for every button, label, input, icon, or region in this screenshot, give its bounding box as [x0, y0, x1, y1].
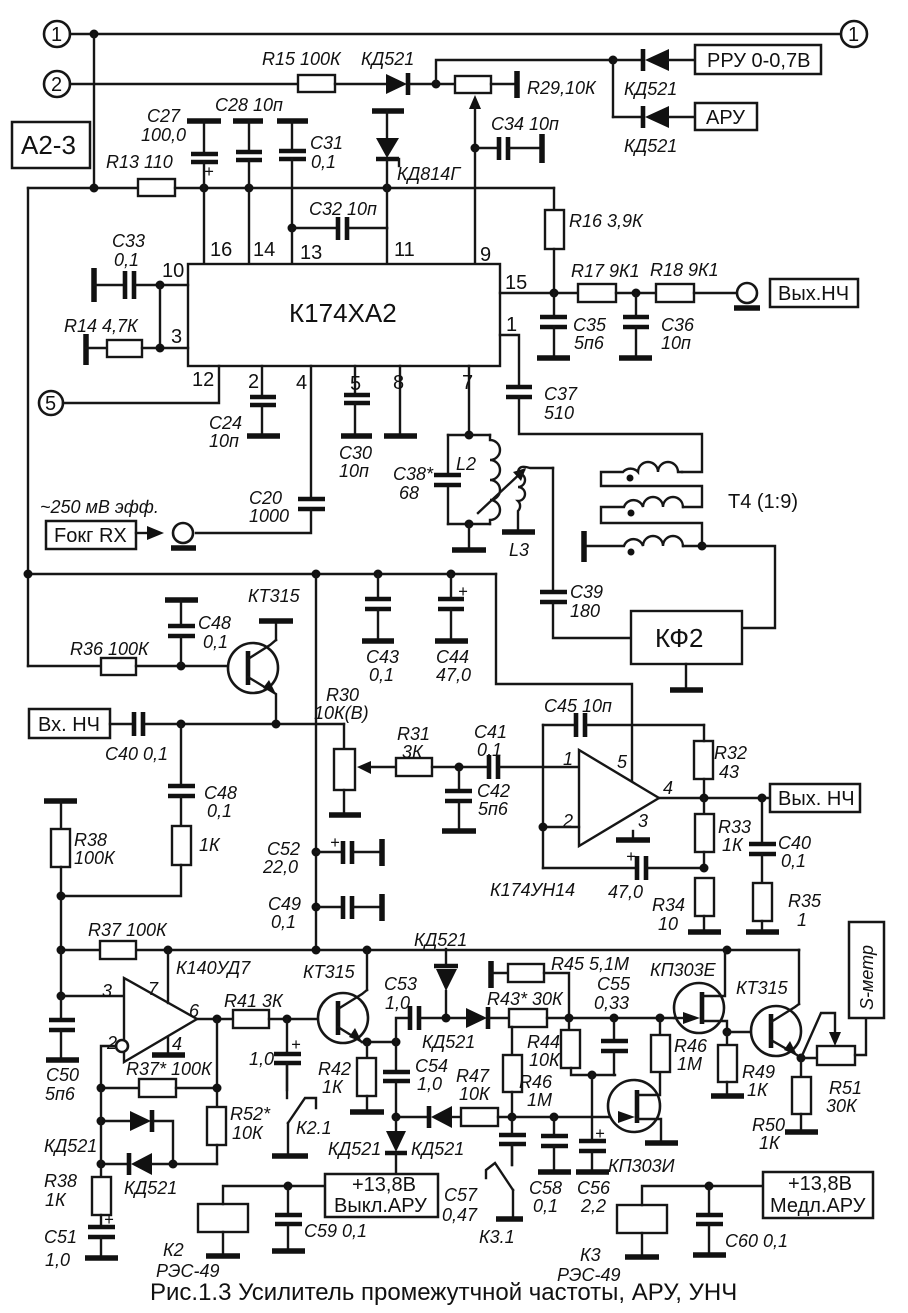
svg-text:4: 4 [663, 778, 673, 798]
svg-text:АРУ: АРУ [706, 107, 745, 129]
switch К3.1 [511, 1144, 513, 1165]
label box АРУ [695, 103, 757, 130]
svg-text:12: 12 [192, 369, 214, 391]
switch К2.1 [286, 1063, 288, 1098]
svg-text:С34 10п: С34 10п [491, 114, 559, 134]
node R33/R34 [700, 864, 709, 873]
svg-text:R30: R30 [326, 685, 359, 705]
arrow from Fокг RX [136, 532, 147, 534]
wire feedback vertical [542, 725, 544, 868]
capacitor C33 0,1 [91, 268, 97, 302]
resistor R49 1К [726, 1032, 728, 1045]
diode VD КД521 (AGC) [466, 1008, 487, 1028]
resistor R16 3,9К [553, 188, 555, 210]
diode VD КД521 (down to Выкл.АРУ) [392, 1113, 401, 1122]
node bus C43 [374, 570, 383, 579]
wire circle5 to pin12 [63, 366, 219, 403]
capacitor C36 10п [635, 293, 637, 315]
svg-text:0,1: 0,1 [203, 632, 228, 652]
svg-text:R44: R44 [527, 1032, 560, 1052]
svg-text:С37: С37 [544, 384, 578, 404]
inductor L2 tank loop with C38 [448, 434, 490, 436]
svg-text:С44: С44 [436, 647, 469, 667]
resistor R32 43 [694, 741, 713, 779]
node gate column [588, 1071, 597, 1080]
svg-text:С50: С50 [46, 1065, 79, 1085]
wire inverting column [100, 1088, 102, 1164]
svg-text:0,1: 0,1 [271, 912, 296, 932]
node C28/pin14 [245, 184, 254, 193]
connector circle 5 [39, 391, 63, 415]
resistor R44 10К [568, 1018, 570, 1030]
capacitor C42 5п6 [458, 767, 460, 789]
svg-text:5: 5 [617, 752, 628, 772]
wire pin16 stem [203, 188, 205, 264]
svg-text:3К: 3К [402, 742, 424, 762]
УД7 pin2 bubble [116, 1040, 128, 1052]
svg-text:С43: С43 [366, 647, 399, 667]
svg-text:R41 3К: R41 3К [224, 991, 284, 1011]
svg-text:К140УД7: К140УД7 [176, 958, 251, 978]
wire pin9 column (wiper to IC pin 9) [474, 148, 476, 264]
svg-text:5п6: 5п6 [45, 1084, 76, 1104]
label box Вых.НЧ [770, 279, 858, 307]
svg-text:1М: 1М [677, 1054, 702, 1074]
wire УН14 pin2 [543, 826, 579, 828]
capacitor C40 0,1 (output) [761, 798, 763, 842]
svg-text:10п: 10п [661, 333, 691, 353]
node bus C44 [447, 570, 456, 579]
node R43/R45 [565, 1014, 574, 1023]
capacitor C20 1000 [298, 497, 325, 502]
capacitor C24 10п [261, 366, 263, 395]
svg-text:С40: С40 [778, 833, 811, 853]
svg-text:7: 7 [462, 372, 473, 394]
svg-text:1,0: 1,0 [249, 1049, 274, 1069]
svg-text:К2.1: К2.1 [296, 1118, 332, 1138]
svg-text:С28 10п: С28 10п [215, 95, 283, 115]
svg-text:R17 9К1: R17 9К1 [571, 261, 640, 281]
capacitor C57 0,47 [511, 1117, 513, 1133]
svg-text:С31: С31 [310, 133, 343, 153]
svg-text:+13,8В: +13,8В [352, 1174, 416, 1196]
capacitor C39 180 [552, 468, 554, 590]
svg-text:С53: С53 [384, 974, 417, 994]
svg-text:+: + [104, 1211, 114, 1229]
resistor R17 9К1 [578, 284, 616, 302]
node R17/C36 [632, 289, 641, 298]
ground УД7 pin4 [167, 1037, 169, 1053]
resistor R33 1К [703, 798, 705, 814]
arrow variable L2 [478, 470, 524, 513]
svg-text:1К: 1К [722, 835, 744, 855]
resistor R41 3К [233, 1010, 269, 1028]
diode VD КД521 (АРУ) [613, 116, 642, 118]
svg-text:С20: С20 [249, 488, 282, 508]
svg-text:0,1: 0,1 [369, 665, 394, 685]
svg-text:КТ315: КТ315 [303, 962, 356, 982]
filter КФ2 [631, 611, 742, 664]
transistor VT КП303Е [674, 983, 724, 1033]
wire ground bus y574 [27, 188, 29, 666]
label box Fокг RX [46, 521, 136, 549]
capacitor C44 47,0 [450, 574, 452, 597]
relay К2 РЭС-49 [198, 1204, 248, 1232]
resistor R43* 30К [509, 1009, 547, 1027]
svg-text:1: 1 [848, 24, 859, 46]
svg-text:С45 10п: С45 10п [544, 696, 612, 716]
node C41/C42 [455, 763, 464, 772]
svg-text:R31: R31 [397, 724, 430, 744]
wire to АРУ diode [612, 60, 614, 117]
svg-text:КД521: КД521 [124, 1178, 177, 1198]
svg-text:Вых.НЧ: Вых.НЧ [778, 283, 849, 305]
wire line 1 top rail [70, 33, 841, 35]
inductor L3 [518, 467, 553, 473]
capacitor C48 0,1 (base) [165, 597, 198, 603]
node bus left [24, 570, 33, 579]
label box А2-3 [12, 122, 90, 168]
node junction РРУ diode [609, 56, 618, 65]
resistor R45 5,1М [488, 961, 494, 988]
svg-text:КД814Г: КД814Г [397, 164, 461, 184]
capacitor C34 10п [475, 147, 499, 149]
svg-text:Вых. НЧ: Вых. НЧ [778, 788, 855, 810]
wire diode to node [410, 83, 436, 85]
svg-text:1М: 1М [527, 1090, 552, 1110]
node rail collector [363, 946, 372, 955]
svg-text:7: 7 [148, 979, 159, 999]
wire pin10 to pin3 [159, 285, 161, 348]
svg-text:+: + [626, 848, 636, 866]
svg-text:КД521: КД521 [624, 136, 677, 156]
svg-text:10: 10 [162, 260, 184, 282]
svg-text:R36 100К: R36 100К [70, 639, 150, 659]
svg-text:R46: R46 [674, 1036, 708, 1056]
capacitor 47,0 feedback [543, 867, 636, 869]
svg-text:100К: 100К [74, 848, 116, 868]
svg-text:С52: С52 [267, 839, 300, 859]
resistor R42 1К [366, 1042, 368, 1058]
svg-text:1: 1 [506, 314, 517, 336]
svg-text:С58: С58 [529, 1178, 562, 1198]
svg-text:10К: 10К [232, 1123, 264, 1143]
label box Вх. НЧ [29, 709, 110, 738]
svg-text:1,0: 1,0 [45, 1250, 70, 1270]
svg-text:С55: С55 [597, 974, 631, 994]
diode VD КД521 (РРУ) [613, 59, 642, 61]
svg-text:С48: С48 [204, 783, 237, 803]
svg-text:КД521: КД521 [414, 930, 467, 950]
svg-text:С32 10п: С32 10п [309, 199, 377, 219]
svg-text:R37 100К: R37 100К [88, 920, 168, 940]
svg-text:R14 4,7К: R14 4,7К [64, 316, 139, 336]
node pin3 [156, 344, 165, 353]
wire pin14 stem [248, 188, 250, 264]
svg-text:+13,8В: +13,8В [788, 1173, 852, 1195]
svg-text:2: 2 [248, 371, 259, 393]
node L2 bottom [465, 520, 474, 529]
svg-text:КД521: КД521 [411, 1139, 464, 1159]
inductor L2 coil [490, 435, 500, 524]
node rail КП303Е drain [723, 946, 732, 955]
wire pin13 stem [291, 228, 293, 264]
svg-text:+: + [595, 1125, 605, 1143]
capacitor C60 0,1 [708, 1186, 710, 1213]
svg-text:С41: С41 [474, 722, 507, 742]
wire opamp input3 column [60, 950, 62, 996]
svg-text:Рис.1.3 Усилитель промежутчной: Рис.1.3 Усилитель промежутчной частоты, … [150, 1279, 737, 1306]
connector circle 1 (top right) [841, 21, 867, 47]
svg-text:R32: R32 [714, 743, 747, 763]
transistor VT КП303И [608, 1080, 660, 1132]
svg-text:R15 100К: R15 100К [262, 49, 342, 69]
node at R29 input [432, 80, 441, 89]
capacitor C41 0,1 [487, 755, 492, 779]
svg-text:R38: R38 [74, 830, 107, 850]
svg-text:11: 11 [394, 239, 415, 261]
svg-text:15: 15 [505, 272, 527, 294]
transformer T4 winding 2 [601, 497, 702, 546]
resistor R18 9К1 [656, 284, 694, 302]
wire node to R29 [436, 83, 455, 85]
node R16/C35 [550, 289, 559, 298]
svg-text:1,0: 1,0 [417, 1074, 442, 1094]
svg-text:+: + [458, 583, 468, 601]
capacitor C32 10п [292, 227, 336, 229]
svg-text:10К: 10К [459, 1084, 491, 1104]
svg-text:А2-3: А2-3 [21, 130, 76, 160]
svg-text:С51: С51 [44, 1227, 77, 1247]
transistor VT КТ315 (driver) [318, 993, 368, 1043]
svg-text:С38*: С38* [393, 464, 434, 484]
capacitor C35 5п6 [553, 293, 555, 315]
svg-text:L2: L2 [456, 454, 476, 474]
node pin7/L2 top [465, 431, 474, 440]
capacitor C48 0,1 (second) [180, 724, 182, 784]
node junction on line 1 [90, 30, 99, 39]
svg-text:10К: 10К [529, 1050, 561, 1070]
svg-text:С59 0,1: С59 0,1 [304, 1221, 367, 1241]
transistor VT КТ315 (buffer) [228, 643, 278, 693]
svg-text:3: 3 [102, 981, 112, 1001]
wire R37 rail [61, 949, 799, 951]
wire rail corner to collector [798, 949, 800, 951]
svg-text:R37* 100К: R37* 100К [126, 1059, 213, 1079]
svg-text:К2: К2 [163, 1240, 184, 1260]
svg-text:КП303И: КП303И [608, 1156, 675, 1176]
wire C52/C49 column [315, 574, 317, 950]
resistor R37* 100К feedback [101, 1087, 139, 1089]
svg-text:180: 180 [570, 601, 600, 621]
svg-text:16: 16 [210, 239, 232, 261]
svg-text:47,0: 47,0 [436, 665, 471, 685]
capacitor C31 0,1 [277, 118, 308, 124]
svg-text:13: 13 [300, 242, 322, 264]
connector circle 2 [44, 71, 70, 97]
svg-text:0,1: 0,1 [477, 740, 502, 760]
capacitor C58 0,1 [553, 1117, 555, 1134]
capacitor C49 0,1 [316, 906, 341, 908]
svg-text:С49: С49 [268, 894, 301, 914]
svg-text:~250 мВ эфф.: ~250 мВ эфф. [40, 497, 159, 517]
diode VD КД521 (limiter down) [101, 1163, 128, 1165]
svg-text:+: + [330, 834, 340, 852]
connector circle (Fокг) [173, 523, 193, 543]
svg-text:R42: R42 [318, 1059, 351, 1079]
svg-text:1000: 1000 [249, 506, 289, 526]
wire gate column [591, 1075, 593, 1117]
svg-text:0,1: 0,1 [781, 851, 806, 871]
node C34 tap [471, 144, 480, 153]
wire УД7 pin7 [167, 950, 169, 1003]
svg-text:5п6: 5п6 [574, 333, 605, 353]
svg-text:1К: 1К [45, 1190, 67, 1210]
node R38/1К [57, 892, 66, 901]
svg-text:КД521: КД521 [44, 1136, 97, 1156]
svg-text:R50: R50 [752, 1115, 785, 1135]
diode VD КД521 (on line 2) [386, 74, 407, 94]
svg-text:5: 5 [350, 373, 361, 395]
svg-text:68: 68 [399, 483, 419, 503]
label box Вых. НЧ (audio) [770, 784, 860, 812]
svg-text:КД521: КД521 [624, 79, 677, 99]
wire source to КТ315 base [727, 1031, 751, 1033]
svg-text:КД521: КД521 [361, 49, 414, 69]
svg-text:R16 3,9К: R16 3,9К [569, 211, 644, 231]
svg-text:R18 9К1: R18 9К1 [650, 260, 719, 280]
node pin10 [156, 281, 165, 290]
capacitor C50 5п6 [60, 996, 62, 1018]
node C48a base [177, 662, 186, 671]
potentiometer R29 10K [455, 76, 491, 93]
svg-text:С30: С30 [339, 443, 372, 463]
svg-text:L3: L3 [509, 540, 529, 560]
resistor R50 1К [800, 1058, 802, 1077]
svg-text:+: + [291, 1036, 301, 1054]
svg-text:С60 0,1: С60 0,1 [725, 1231, 788, 1251]
svg-text:КТ315: КТ315 [736, 978, 789, 998]
svg-text:S-метр: S-метр [857, 945, 877, 1010]
resistor R34 10 [695, 878, 714, 916]
capacitor C30 10п [354, 366, 356, 393]
svg-text:1: 1 [563, 749, 573, 769]
svg-text:С33: С33 [112, 231, 145, 251]
label box РРУ 0-0,7В [695, 45, 821, 74]
wire vertical from line1 to R13 bus [93, 34, 95, 188]
svg-text:К174УН14: К174УН14 [490, 880, 575, 900]
svg-text:R34: R34 [652, 895, 685, 915]
svg-text:С39: С39 [570, 582, 603, 602]
svg-text:1: 1 [797, 910, 807, 930]
svg-text:9: 9 [480, 244, 491, 266]
node R37/pin7 [164, 946, 173, 955]
svg-text:R33: R33 [718, 817, 751, 837]
capacitor C40 0,1 (input) [110, 723, 132, 725]
capacitor C56 2,2 [591, 1117, 593, 1139]
node R41/C cap [283, 1015, 292, 1024]
svg-text:+: + [204, 163, 214, 181]
node pin13/C32 [288, 224, 297, 233]
node emitter input [272, 720, 281, 729]
capacitor 1,0 (К2.1) [286, 1019, 288, 1052]
svg-text:8: 8 [393, 372, 404, 394]
svg-text:С48: С48 [198, 613, 231, 633]
ground pin 8 [399, 366, 401, 434]
wire bus to УН14 pin5 [496, 574, 632, 783]
resistor R13 110 with bus [28, 187, 138, 189]
op-amp U3 К140УД7 [124, 978, 197, 1062]
svg-text:1К: 1К [759, 1133, 781, 1153]
svg-text:КФ2: КФ2 [655, 623, 703, 653]
op-amp U2 К174УН14 [579, 750, 659, 846]
svg-text:510: 510 [544, 403, 574, 423]
resistor R46 1М (middle) [511, 1027, 513, 1055]
svg-text:0,47: 0,47 [442, 1205, 478, 1225]
ground КФ2 [685, 664, 687, 688]
resistor R47 10К [461, 1108, 498, 1126]
capacitor C53 1,0 [396, 1018, 409, 1042]
capacitor C55 0,33 [610, 1014, 619, 1023]
svg-text:КД521: КД521 [328, 1139, 381, 1159]
svg-text:R45 5,1М: R45 5,1М [551, 954, 629, 974]
resistor R36 100К [28, 665, 101, 667]
resistor R52* 10К [207, 1107, 226, 1145]
resistor R37 100К [100, 941, 136, 959]
svg-text:10: 10 [658, 914, 678, 934]
svg-text:22,0: 22,0 [262, 857, 298, 877]
svg-text:С57: С57 [444, 1185, 478, 1205]
svg-text:2,2: 2,2 [580, 1196, 606, 1216]
resistor R14 4,7К [83, 334, 89, 365]
svg-text:4: 4 [296, 372, 307, 394]
node emitter R50/R51 [797, 1054, 806, 1063]
resistor R15 [298, 75, 335, 92]
svg-text:К174ХА2: К174ХА2 [289, 298, 397, 328]
svg-text:0,33: 0,33 [594, 993, 629, 1013]
svg-text:R51: R51 [829, 1078, 862, 1098]
node R13 bus left [90, 184, 99, 193]
svg-text:1: 1 [51, 24, 62, 46]
relay К3 РЭС-49 [617, 1205, 667, 1233]
capacitor C45 10п [543, 724, 575, 726]
svg-text:С27: С27 [147, 106, 181, 126]
capacitor C51 1,0 [88, 1225, 115, 1230]
svg-text:R35: R35 [788, 891, 822, 911]
svg-text:Fокг RX: Fокг RX [54, 525, 127, 547]
svg-text:3: 3 [638, 811, 648, 831]
svg-text:Вх. НЧ: Вх. НЧ [38, 714, 100, 736]
svg-text:R13 110: R13 110 [106, 152, 173, 172]
node bus C52 column [312, 570, 321, 579]
svg-text:1К: 1К [322, 1077, 344, 1097]
connector circle Вых.НЧ [737, 283, 757, 303]
IC U1 К174ХА2 [188, 264, 500, 366]
svg-text:R47: R47 [456, 1066, 490, 1086]
wire output column [216, 1019, 218, 1107]
svg-text:0,1: 0,1 [533, 1196, 558, 1216]
capacitor C54 1,0 [395, 1042, 397, 1070]
svg-text:С54: С54 [415, 1056, 448, 1076]
svg-text:1К: 1К [199, 835, 221, 855]
svg-text:К3: К3 [580, 1245, 601, 1265]
diode VD КД521 (limiter up) [101, 1120, 130, 1122]
resistor R38 1К (bottom) [100, 1164, 102, 1177]
svg-text:С35: С35 [573, 315, 607, 335]
capacitor C52 22,0 [316, 851, 341, 853]
node C27/pin16 [200, 184, 209, 193]
node T4 output [698, 542, 707, 551]
